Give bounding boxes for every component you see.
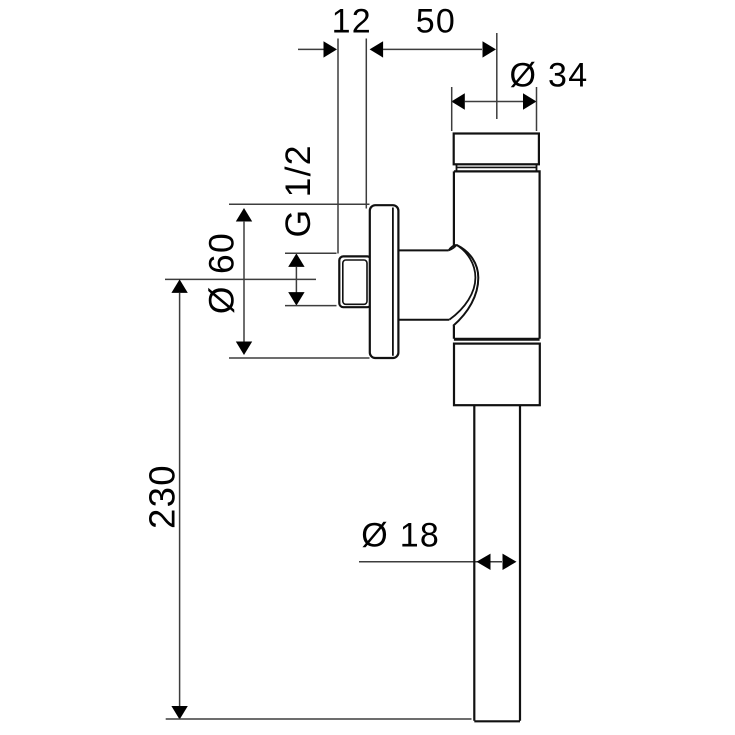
svg-text:50: 50 <box>416 3 456 41</box>
leader line Ø18 with double arrow <box>359 554 517 570</box>
svg-text:230: 230 <box>141 464 182 529</box>
extension line Ø34 left <box>451 87 453 131</box>
vertical centerline of valve body <box>496 33 498 119</box>
svg-text:12: 12 <box>332 3 372 41</box>
extension line G1/2 bottom <box>285 305 337 307</box>
dimension label G 1/2 (rotated) <box>278 144 318 237</box>
extension line Ø60 top <box>229 203 370 205</box>
dimension line Ø34 (arrows outward) <box>451 93 536 109</box>
inlet dome (outer contour) <box>453 245 478 326</box>
dimension label Ø 18 <box>361 517 440 555</box>
extension line x=338.5 (nipple face) <box>337 39 339 254</box>
dimension line Ø60 (vertical, arrows outward) <box>236 208 252 355</box>
flush pipe <box>474 405 520 721</box>
valve main body <box>454 171 540 338</box>
svg-text:Ø 18: Ø 18 <box>361 517 440 555</box>
extension line G1/2 top <box>285 252 337 254</box>
connector pipe flange to body <box>399 250 450 319</box>
dimension label Ø 60 (rotated) <box>202 232 242 314</box>
svg-text:G 1/2: G 1/2 <box>278 144 318 237</box>
svg-text:Ø 34: Ø 34 <box>510 56 589 94</box>
valve neck groove <box>457 164 537 171</box>
inlet dome (inner contour) <box>449 245 475 320</box>
inlet dome top curl <box>449 245 457 251</box>
dimension line 230 (vertical, arrows outward) <box>171 279 187 719</box>
dimension label 12 <box>332 3 372 41</box>
horizontal centerline of inlet <box>165 278 316 280</box>
dimension line 12 (tail + right arrow) <box>298 41 337 57</box>
wall flange plate <box>370 205 399 358</box>
valve top cap <box>454 134 539 165</box>
dimension line 50 (left arrow + line + right arrow) <box>370 41 496 57</box>
extension line Ø34 right <box>536 87 538 131</box>
dimension line G1/2 (vertical double arrow) <box>288 253 304 305</box>
flange front face line <box>392 208 394 356</box>
inlet nipple G1/2 inner chamfer outline <box>343 260 367 304</box>
valve body bottom thick line <box>454 338 540 341</box>
svg-text:Ø 60: Ø 60 <box>202 232 242 314</box>
valve bottom cap <box>454 344 540 406</box>
extension line x=366.3 (flange face) <box>365 39 367 209</box>
dimension label 230 (rotated) <box>141 464 182 529</box>
extension line Ø60 bottom <box>229 357 370 359</box>
extension line bottom of pipe <box>166 718 472 720</box>
inlet nipple G1/2 outer outline <box>339 256 371 307</box>
dimension label Ø 34 <box>510 56 589 94</box>
dimension label 50 <box>416 3 456 41</box>
